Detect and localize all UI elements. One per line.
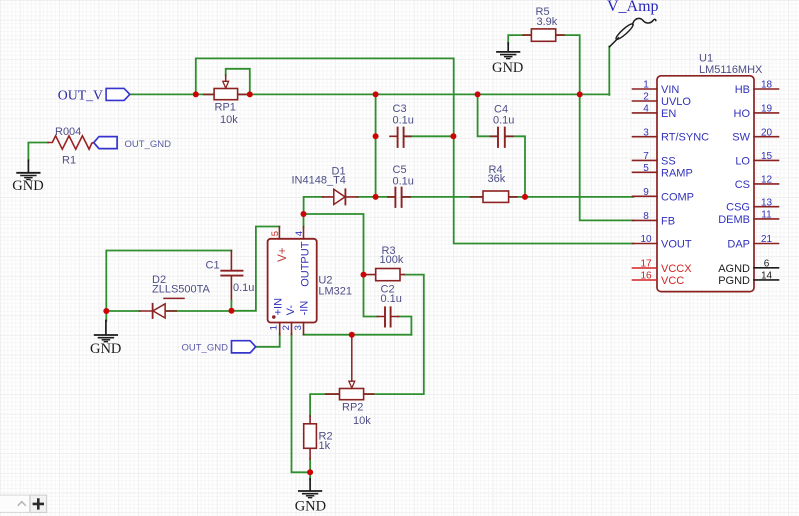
wire U2 pin2 V- down to ground node (292, 334, 311, 472)
svg-text:V+: V+ (277, 247, 289, 262)
svg-text:11: 11 (761, 210, 772, 221)
wire C2 right loop down to -IN net (398, 317, 411, 335)
wire R4 right to COMP pin 9 (509, 196, 634, 198)
svg-text:SS: SS (661, 155, 676, 167)
node R2 bottom GND (307, 469, 313, 475)
svg-text:PGND: PGND (718, 275, 750, 287)
svg-text:AGND: AGND (718, 263, 750, 275)
node R3 left (361, 272, 367, 278)
svg-text:16: 16 (640, 271, 652, 282)
svg-text:9: 9 (643, 187, 649, 198)
svg-text:14: 14 (761, 271, 773, 282)
svg-text:19: 19 (761, 104, 773, 115)
U1 pin 16 VCC (633, 271, 685, 287)
svg-text:GND: GND (295, 499, 326, 515)
svg-text:V_Amp: V_Amp (607, 0, 659, 15)
svg-text:6: 6 (764, 259, 770, 270)
wire OUT_GND flag to U2 pin1 (256, 334, 280, 347)
wire U2 V+ pin5 to C1 bottom node (232, 227, 280, 311)
U1 pin 6 AGND (718, 259, 778, 275)
U1 pin 2 UVLO (633, 92, 692, 108)
svg-text:LO: LO (735, 155, 750, 167)
svg-text:UVLO: UVLO (661, 96, 691, 108)
U1 pin 17 VCCX (633, 259, 693, 275)
wire D1 cathode to C5 left node (358, 196, 376, 198)
svg-text:5: 5 (270, 231, 281, 236)
svg-text:LM321: LM321 (318, 285, 352, 297)
wire FB net from main down to pin 8 (580, 94, 634, 220)
svg-text:VCCX: VCCX (661, 263, 692, 275)
wire RP1 wiper loop (226, 69, 250, 95)
svg-text:ZLLS500TA: ZLLS500TA (152, 283, 211, 295)
svg-text:GND: GND (12, 178, 43, 194)
svg-text:3: 3 (643, 127, 649, 138)
node C1 bottom (229, 308, 235, 314)
svg-text:20: 20 (761, 127, 773, 138)
U1 pin 13 CSG (726, 197, 778, 213)
svg-text:FB: FB (661, 215, 675, 227)
capacitor C4 (491, 104, 515, 147)
svg-text:1k: 1k (319, 440, 331, 452)
U1 pin 10 VOUT (633, 234, 692, 250)
svg-text:RT/SYNC: RT/SYNC (661, 132, 709, 144)
U1 pin 9 COMP (633, 187, 695, 203)
svg-text:1: 1 (643, 80, 649, 91)
svg-text:VOUT: VOUT (661, 239, 692, 251)
svg-text:15: 15 (761, 151, 773, 162)
wire R5 left to GND (508, 35, 531, 44)
wire C5 left stub (376, 196, 395, 198)
svg-text:R1: R1 (62, 155, 76, 167)
wire main OUT_V horizontal net y=94.4 (130, 93, 609, 95)
UI zoom toolbar bottom-left (0, 495, 47, 512)
potentiometer RP2 (326, 337, 374, 427)
svg-text:2: 2 (643, 92, 649, 103)
wire C3 right to VOUT column (404, 135, 453, 137)
svg-text:2: 2 (281, 325, 292, 330)
svg-text:DEMB: DEMB (718, 214, 750, 226)
svg-text:13: 13 (761, 197, 773, 208)
U1 pin 21 DAP (727, 234, 778, 250)
U1 pin 3 RT/SYNC (633, 127, 710, 143)
wire feedback node to R3-C2 left column (304, 214, 378, 317)
node RP1 left (193, 91, 199, 97)
U1 pin 8 FB (633, 211, 676, 227)
node C3 right (450, 133, 456, 139)
IC U1 LM5116MHX (657, 52, 763, 291)
net flag OUT_GND (at U2 pin 1) (182, 341, 256, 354)
node D2 cathode GND (103, 308, 109, 314)
svg-text:CS: CS (735, 179, 750, 191)
node RP2 wiper (349, 332, 355, 338)
wire D1 anode down to U2 output node (304, 197, 323, 214)
svg-text:C5: C5 (393, 164, 407, 176)
svg-text:HO: HO (734, 108, 751, 120)
svg-text:C1: C1 (206, 259, 220, 271)
svg-text:EN: EN (661, 108, 676, 120)
wire -IN net horizontal (304, 334, 412, 336)
node R4 right (522, 194, 528, 200)
svg-text:10: 10 (640, 234, 652, 245)
svg-text:HB: HB (735, 84, 750, 96)
svg-text:IN4148_T4: IN4148_T4 (292, 174, 346, 186)
node RP1 right (247, 91, 253, 97)
svg-text:R004: R004 (55, 126, 81, 138)
U1 pin 5 RAMP (633, 163, 693, 179)
svg-text:GND: GND (90, 341, 121, 357)
svg-text:RAMP: RAMP (661, 167, 693, 179)
node C3 left (373, 133, 379, 139)
U1 pin 11 DEMB (718, 210, 778, 226)
capacitor C1 (206, 251, 255, 311)
capacitor C5 (388, 164, 414, 207)
wire R3 right down to RP2 right (364, 275, 424, 395)
svg-text:4: 4 (294, 231, 305, 236)
potentiometer RP1 (204, 75, 250, 126)
svg-text:COMP: COMP (661, 191, 694, 203)
resistor R4 (471, 164, 518, 202)
svg-text:GND: GND (492, 60, 523, 76)
wire R2 bottom to ground node (309, 459, 311, 472)
svg-text:DAP: DAP (727, 239, 750, 251)
wire C4 left column (478, 94, 498, 136)
svg-text:C3: C3 (393, 103, 407, 115)
wire R5 right down to main net (556, 35, 580, 94)
resistor R3 (365, 245, 404, 281)
wire R1 left to GND (28, 143, 48, 161)
svg-text:OUTPUT: OUTPUT (299, 241, 311, 287)
diode D2 ZLLS500TA (140, 274, 211, 318)
node C4 column top (475, 91, 481, 97)
capacitor C3 (390, 103, 414, 147)
node R5/FB (577, 91, 583, 97)
svg-text:3: 3 (293, 325, 304, 330)
svg-text:OUT_GND: OUT_GND (125, 139, 172, 150)
svg-text:0.1u: 0.1u (393, 114, 414, 126)
diode D1 IN4148_T4 (292, 165, 358, 204)
probe V_Amp (607, 0, 659, 47)
op-amp U2 LM321 (268, 227, 352, 335)
U1 pin 15 LO (735, 151, 778, 167)
svg-text:VCC: VCC (661, 275, 684, 287)
svg-text:SW: SW (732, 132, 750, 144)
svg-text:4: 4 (643, 104, 649, 115)
ground GND (bottom, below R2) (295, 472, 326, 514)
wire U2 pin4 stub up (303, 214, 305, 227)
svg-text:+IN: +IN (273, 298, 285, 315)
wire mid column C3-C5 left (375, 94, 377, 196)
wire RP2 left down to R2 top (310, 394, 339, 416)
svg-text:0.1u: 0.1u (393, 175, 414, 187)
svg-text:8: 8 (643, 211, 649, 222)
U1 pin 18 HB (735, 80, 779, 96)
net flag OUT_GND (left, at R1) (94, 137, 171, 150)
svg-text:12: 12 (761, 175, 773, 186)
node C5 left (373, 194, 379, 200)
resistor R2 (304, 416, 333, 459)
svg-text:V-: V- (285, 305, 297, 316)
U1 pin 14 PGND (718, 271, 778, 287)
wire top loop RP1-left to VOUT pin 10 (196, 58, 634, 243)
node C3/C5 column top (373, 91, 379, 97)
svg-text:1: 1 (268, 325, 279, 330)
wire C5 right to R4 left (402, 196, 483, 198)
wire D2 anode to C1 bottom node (166, 310, 232, 312)
wire D2 cathode to GND node (106, 310, 139, 312)
svg-text:-IN: -IN (299, 301, 311, 316)
svg-text:17: 17 (640, 259, 652, 270)
ground GND (below D2) (90, 311, 121, 357)
resistor R1 (R004 shunt, zigzag) (48, 126, 94, 167)
U1 pin 4 EN (633, 104, 677, 120)
svg-text:10k: 10k (220, 114, 238, 126)
net flag OUT_V (58, 87, 130, 102)
U1 pin 12 CS (735, 175, 779, 191)
resistor R5 (523, 6, 564, 41)
svg-text:OUT_V: OUT_V (58, 87, 103, 102)
svg-text:CSG: CSG (726, 202, 750, 214)
svg-text:OUT_GND: OUT_GND (182, 342, 229, 353)
svg-text:100k: 100k (380, 254, 404, 266)
svg-text:0.1u: 0.1u (233, 282, 254, 294)
svg-text:3.9k: 3.9k (537, 16, 558, 28)
svg-text:VIN: VIN (661, 84, 679, 96)
wire C4 right down to R4 right (506, 136, 526, 197)
svg-text:21: 21 (761, 234, 773, 245)
node U2 output (301, 211, 307, 217)
svg-text:U1: U1 (699, 52, 713, 64)
svg-text:5: 5 (643, 163, 649, 174)
svg-text:RP1: RP1 (215, 102, 236, 114)
svg-text:RP2: RP2 (342, 401, 363, 413)
svg-text:0.1u: 0.1u (381, 293, 402, 305)
svg-text:7: 7 (643, 151, 649, 162)
U1 pin 20 SW (732, 127, 778, 143)
svg-text:36k: 36k (488, 173, 506, 185)
U1 pin 1 VIN (633, 80, 680, 96)
wire probe drop V_Amp (608, 46, 610, 95)
svg-text:10k: 10k (353, 415, 371, 427)
U1 pin 7 SS (633, 151, 676, 167)
U1 pin 19 HO (734, 104, 779, 120)
svg-text:LM5116MHX: LM5116MHX (699, 64, 763, 76)
wire GND riser to C1 top (106, 251, 231, 312)
ground GND (below R1) (12, 160, 43, 194)
ground GND (below R5 left) (492, 43, 523, 76)
capacitor C2 (378, 283, 402, 326)
svg-text:18: 18 (761, 80, 773, 91)
svg-text:0.1u: 0.1u (493, 115, 514, 127)
